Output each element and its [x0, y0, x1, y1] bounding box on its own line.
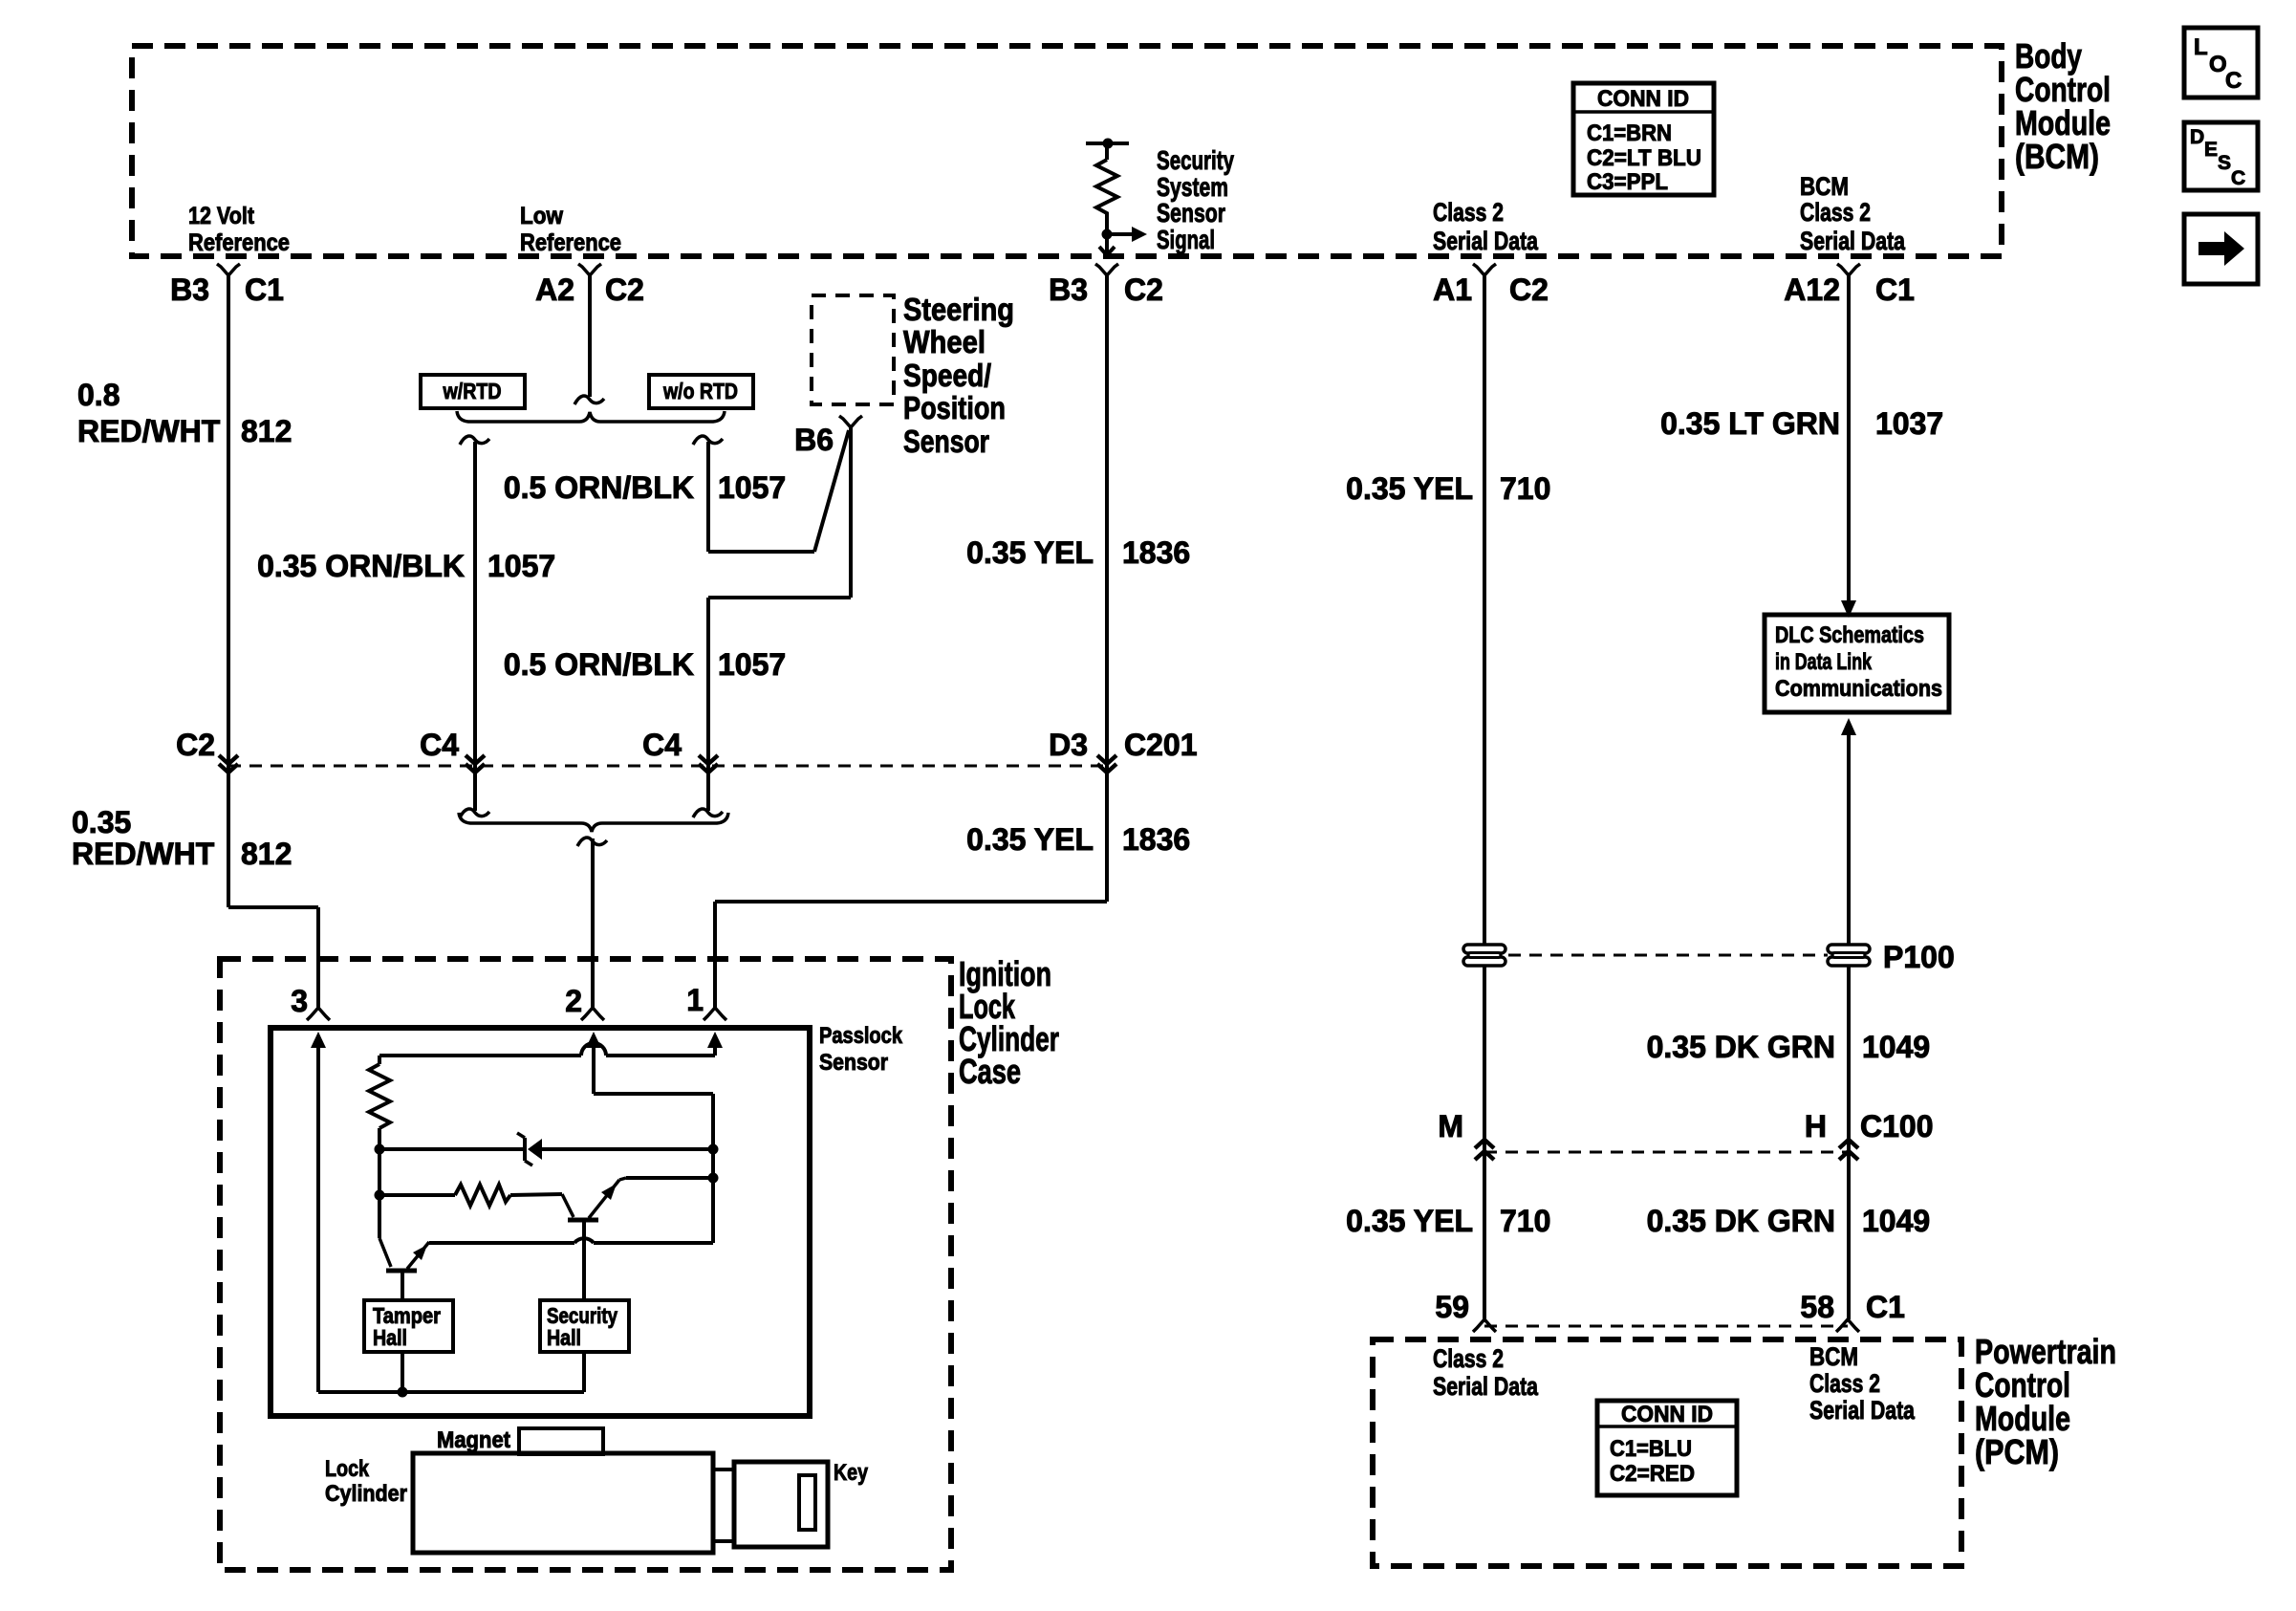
component: key neck: [713, 1469, 734, 1541]
connector line: P100 (dashed): [1508, 954, 1828, 957]
component box: Security Hall: [540, 1300, 629, 1352]
wire: 710 YEL class 2 serial data from BCM A1 to PCM 59: [1483, 275, 1486, 1319]
svg-text:812: 812: [241, 837, 292, 871]
svg-text:Signal: Signal: [1157, 225, 1215, 254]
svg-text:w/RTD: w/RTD: [443, 379, 502, 403]
svg-text:(BCM): (BCM): [2015, 137, 2099, 176]
label: BCM Class 2 Serial Data (A12): [1800, 172, 1906, 255]
wire: 1037 LT GRN from BCM A12 to DLC arrow: [1847, 275, 1851, 602]
legend box: LOC: [2184, 28, 2258, 98]
svg-text:0.8: 0.8: [77, 378, 119, 412]
wire: pin2 node down right side: [594, 1092, 713, 1096]
wire: Security Hall to ground bus: [582, 1352, 586, 1392]
svg-text:Low: Low: [520, 203, 563, 229]
wire: w/o RTD branch to steering sensor B6: [706, 442, 710, 552]
svg-text:C: C: [2225, 68, 2242, 94]
svg-text:B3: B3: [170, 272, 209, 307]
svg-text:1: 1: [686, 983, 704, 1017]
connector line: C100 (dashed): [1484, 1151, 1849, 1154]
resistor: security system sensor (vertical): [1105, 143, 1109, 160]
svg-text:0.35 LT GRN: 0.35 LT GRN: [1660, 406, 1840, 441]
arrow: pin 2 entry into Passlock sensor: [586, 1032, 601, 1048]
connector crossing: C100 left (chevrons up): [1475, 1140, 1494, 1148]
svg-text:0.35: 0.35: [72, 805, 131, 839]
svg-text:L: L: [2194, 34, 2208, 60]
svg-text:1836: 1836: [1122, 822, 1190, 857]
svg-text:Reference: Reference: [188, 229, 290, 256]
svg-text:1049: 1049: [1862, 1204, 1930, 1238]
component box: Lock Cylinder: [413, 1453, 713, 1553]
svg-text:0.35 DK GRN: 0.35 DK GRN: [1647, 1204, 1835, 1238]
brace: options split (top): [457, 411, 725, 422]
component box: Key: [734, 1462, 828, 1547]
connector pin: BCM B3/C1: [217, 264, 240, 275]
svg-text:710: 710: [1500, 471, 1550, 506]
table: CONN ID (BCM) C1=BRN C2=LT BLU C3=PPL: [1573, 83, 1714, 195]
component box: Passlock Sensor: [271, 1028, 810, 1416]
svg-text:0.35 YEL: 0.35 YEL: [966, 535, 1094, 570]
label: Security System Sensor Signal: [1157, 145, 1234, 254]
component box: Tamper Hall: [364, 1300, 453, 1352]
wire: 1049 DK GRN up-arrow into DLC box and down to PCM 58: [1841, 718, 1856, 735]
transistor: Q2 security hall driver: [562, 1194, 574, 1217]
connector pin: PCM 58: [1836, 1319, 1859, 1332]
wire: 1836 YEL from BCM B3/C2 down, over to Passlock pin 1: [1105, 275, 1109, 902]
svg-text:0.35 DK GRN: 0.35 DK GRN: [1647, 1030, 1835, 1064]
transistor: Q1 tamper hall driver: [379, 1238, 391, 1267]
svg-text:Class 2: Class 2: [1800, 198, 1871, 227]
connector crossing: C4 left (chevrons): [466, 755, 485, 764]
legend box: DESC: [2184, 122, 2258, 190]
svg-text:Serial Data: Serial Data: [1433, 227, 1539, 255]
arrow: pin 3 entry into Passlock sensor: [311, 1032, 326, 1048]
svg-text:B6: B6: [794, 423, 834, 457]
svg-text:A12: A12: [1784, 272, 1840, 307]
module box: Body Control Module (BCM), dashed border: [132, 46, 2002, 256]
svg-text:Class 2: Class 2: [1433, 198, 1504, 227]
connector pin: BCM A2/C2: [578, 264, 601, 275]
wire: resistor to BCM border with down chevron: [1105, 234, 1109, 254]
table: CONN ID (PCM) C1=BLU C2=RED: [1597, 1401, 1737, 1495]
svg-text:BCM: BCM: [1800, 172, 1849, 201]
connector: P100 pass-through (right wire): [1828, 945, 1870, 953]
svg-text:P100: P100: [1883, 940, 1955, 974]
svg-text:C1=BLU: C1=BLU: [1610, 1436, 1692, 1462]
svg-text:w/o RTD: w/o RTD: [662, 379, 738, 403]
svg-text:Lock: Lock: [325, 1456, 370, 1482]
svg-text:C1: C1: [1875, 272, 1915, 307]
svg-text:C1: C1: [1866, 1290, 1905, 1324]
legend box: arrow: [2184, 214, 2258, 284]
connector pin: BCM A12/C1: [1837, 264, 1860, 275]
module box: Powertrain Control Module (PCM), dashed border: [1373, 1339, 1961, 1566]
svg-text:Passlock: Passlock: [819, 1023, 903, 1049]
svg-text:0.35 YEL: 0.35 YEL: [966, 822, 1094, 857]
svg-text:A1: A1: [1433, 272, 1472, 307]
node: junction Q2 collector / pin2 wire: [708, 1173, 719, 1184]
svg-text:Wheel: Wheel: [903, 324, 986, 359]
option box: w/RTD: [421, 375, 525, 408]
node: junction R1 bottom / zener: [375, 1144, 385, 1155]
connector pin: Passlock 2: [581, 1008, 604, 1020]
svg-text:Position: Position: [903, 390, 1006, 425]
svg-text:DLC Schematics: DLC Schematics: [1775, 622, 1924, 648]
svg-text:2: 2: [565, 984, 582, 1018]
svg-text:Sensor: Sensor: [1157, 198, 1225, 228]
wire: Passlock internal ground bus: [318, 1390, 584, 1394]
svg-text:D3: D3: [1049, 728, 1088, 762]
label: Body Control Module (BCM): [2015, 36, 2111, 176]
svg-text:C100: C100: [1860, 1109, 1934, 1143]
svg-text:C4: C4: [642, 728, 682, 762]
svg-text:C2: C2: [176, 728, 215, 762]
connector pin: Passlock 3: [307, 1008, 330, 1020]
svg-text:C1=BRN: C1=BRN: [1587, 120, 1672, 146]
svg-text:C: C: [2231, 167, 2245, 189]
svg-text:BCM: BCM: [1809, 1342, 1858, 1371]
svg-text:O: O: [2209, 52, 2227, 77]
symbol: wire break below merge brace: [577, 838, 607, 846]
label: Class 2 Serial Data (PCM 59): [1433, 1344, 1539, 1401]
svg-text:C2: C2: [1509, 272, 1549, 307]
symbol: wire break at w/RTD branch: [460, 436, 489, 445]
svg-text:12 Volt: 12 Volt: [188, 203, 255, 229]
svg-text:D: D: [2190, 126, 2204, 148]
label: BCM Class 2 Serial Data (PCM 58): [1809, 1342, 1916, 1425]
connector line: C2 / C4 / C201 (dashed): [228, 765, 1107, 768]
svg-text:0.5 ORN/BLK: 0.5 ORN/BLK: [504, 647, 694, 682]
svg-text:Sensor: Sensor: [819, 1050, 888, 1076]
label: Steering Wheel Speed/Position Sensor: [903, 292, 1014, 459]
svg-text:Speed/: Speed/: [903, 358, 991, 393]
label: Ignition Lock Cylinder Case: [959, 954, 1059, 1091]
svg-text:1836: 1836: [1122, 535, 1190, 570]
connector crossing: C2 (chevrons): [219, 755, 238, 764]
arrow: security system sensor signal (to right): [1107, 232, 1134, 236]
resistor: Passlock R2 (horizontal): [379, 1193, 455, 1197]
arrow: pin 1 entry into Passlock sensor: [707, 1032, 723, 1048]
svg-text:Steering: Steering: [903, 292, 1014, 327]
svg-text:C3=PPL: C3=PPL: [1587, 169, 1668, 195]
svg-text:58: 58: [1800, 1290, 1834, 1324]
svg-text:H: H: [1805, 1109, 1827, 1143]
svg-text:Class 2: Class 2: [1809, 1369, 1880, 1398]
resistor: Passlock R1 (vertical): [369, 1064, 390, 1128]
svg-text:Key: Key: [834, 1460, 869, 1486]
symbol: wire break at w/o RTD branch: [693, 436, 723, 445]
component box: Magnet: [519, 1428, 603, 1454]
svg-text:C2=LT BLU: C2=LT BLU: [1587, 145, 1701, 171]
svg-text:Case: Case: [959, 1052, 1021, 1091]
svg-text:Communications: Communications: [1775, 676, 1942, 702]
svg-text:Hall: Hall: [373, 1325, 407, 1350]
symbol: wire break above merge brace right: [693, 809, 723, 817]
wire: Tamper Hall to ground bus: [401, 1352, 404, 1392]
svg-text:S: S: [2218, 152, 2231, 174]
reference box: DLC Schematics in Data Link Communications: [1765, 615, 1949, 712]
label: Powertrain Control Module (PCM): [1975, 1332, 2116, 1471]
connector crossing: C100 right (chevrons up): [1839, 1140, 1858, 1148]
svg-text:Reference: Reference: [520, 229, 621, 256]
connector pin: BCM A1/C2: [1473, 264, 1496, 275]
connector pin: Passlock 1: [704, 1008, 726, 1020]
wire: 812 RED/WHT from BCM B3 down, over to Passlock pin 3: [227, 275, 230, 907]
svg-text:812: 812: [241, 414, 292, 448]
svg-text:Magnet: Magnet: [437, 1427, 510, 1453]
wire: stub at top of security sensor resistor: [1086, 142, 1129, 145]
label: 12 Volt Reference: [188, 203, 290, 256]
svg-text:C2=RED: C2=RED: [1610, 1461, 1695, 1487]
svg-text:RED/WHT: RED/WHT: [72, 837, 215, 871]
component: key slot: [799, 1475, 815, 1530]
connector: P100 pass-through (left wire): [1463, 945, 1505, 953]
connector pin: BCM B3/C2: [1095, 264, 1118, 275]
label: Passlock Sensor: [819, 1023, 903, 1076]
connector pin: PCM 59: [1473, 1319, 1496, 1332]
svg-text:C1: C1: [245, 272, 284, 307]
svg-text:B3: B3: [1049, 272, 1088, 307]
svg-text:C4: C4: [420, 728, 459, 762]
svg-text:Serial Data: Serial Data: [1433, 1372, 1539, 1401]
node: junction Tamper Hall / bus: [398, 1387, 408, 1398]
wire: low reference from BCM A2 down to options break: [588, 275, 592, 397]
svg-text:Cylinder: Cylinder: [325, 1481, 407, 1507]
option box: w/o RTD: [649, 375, 753, 408]
label: Class 2 Serial Data (A1): [1433, 198, 1539, 255]
svg-text:1057: 1057: [487, 549, 555, 583]
wire: R1 bottom to Q1 base: [378, 1149, 381, 1238]
label: Lock Cylinder: [325, 1456, 407, 1507]
svg-text:1057: 1057: [718, 647, 786, 682]
svg-text:1049: 1049: [1862, 1030, 1930, 1064]
diode: zener D1: [379, 1147, 525, 1151]
connector pin: steering sensor B6: [839, 416, 862, 427]
brace: options merge (bottom): [459, 813, 728, 832]
node: junction R1 / R2 tap: [375, 1190, 385, 1201]
svg-text:CONN ID: CONN ID: [1597, 86, 1689, 112]
svg-text:A2: A2: [535, 272, 574, 307]
svg-text:Class 2: Class 2: [1433, 1344, 1504, 1373]
svg-text:Serial Data: Serial Data: [1800, 227, 1906, 255]
svg-text:C2: C2: [605, 272, 644, 307]
svg-text:C2: C2: [1124, 272, 1163, 307]
svg-text:Security: Security: [1157, 145, 1234, 175]
node: junction dot below resistor: [1102, 229, 1113, 240]
svg-text:Sensor: Sensor: [903, 424, 989, 459]
svg-text:RED/WHT: RED/WHT: [77, 414, 221, 448]
svg-text:E: E: [2204, 139, 2218, 161]
svg-text:Hall: Hall: [547, 1325, 581, 1350]
svg-text:59: 59: [1435, 1290, 1469, 1324]
wire: Q2 emitter to Security Hall: [582, 1221, 586, 1300]
svg-text:M: M: [1438, 1109, 1463, 1143]
svg-text:0.35 ORN/BLK: 0.35 ORN/BLK: [257, 549, 465, 583]
svg-text:0.5 ORN/BLK: 0.5 ORN/BLK: [504, 470, 694, 505]
node: junction dot at resistor top: [1103, 139, 1114, 149]
module box: Ignition Lock Cylinder Case (dashed): [220, 959, 951, 1570]
symbol: wire break at A2 branch: [574, 396, 604, 404]
wire: merged low reference to Passlock pin 2: [591, 838, 595, 1008]
svg-text:1037: 1037: [1875, 406, 1943, 441]
connector crossing: C201 (chevrons): [1097, 755, 1116, 764]
label: Low Reference: [520, 203, 621, 256]
symbol: wire break above merge brace left: [460, 809, 489, 817]
svg-text:1057: 1057: [718, 470, 786, 505]
connector line: PCM pins (dashed): [1484, 1325, 1848, 1328]
svg-text:C201: C201: [1124, 728, 1198, 762]
wire: Q1 collector line with hop over Q2 emitter: [594, 1241, 713, 1245]
svg-text:CONN ID: CONN ID: [1621, 1402, 1713, 1427]
svg-text:(PCM): (PCM): [1975, 1432, 2059, 1471]
wire: pin1 to resistor top with hop over pin2 wire: [606, 1054, 715, 1057]
node: junction zener / pin2 wire: [708, 1144, 719, 1155]
connector crossing: C4 right (chevrons): [699, 755, 718, 764]
svg-text:710: 710: [1500, 1204, 1550, 1238]
svg-text:0.35 YEL: 0.35 YEL: [1346, 471, 1473, 506]
module box: Steering Wheel Speed/Position Sensor (dashed): [812, 295, 894, 404]
wire: w/RTD branch 0.35 ORN/BLK down to C4: [473, 442, 477, 811]
svg-text:Serial Data: Serial Data: [1809, 1396, 1916, 1425]
svg-text:in Data Link: in Data Link: [1775, 649, 1872, 675]
svg-text:3: 3: [291, 984, 308, 1018]
svg-text:0.35 YEL: 0.35 YEL: [1346, 1204, 1473, 1238]
wire: from B6 down and left to C4: [849, 427, 853, 598]
